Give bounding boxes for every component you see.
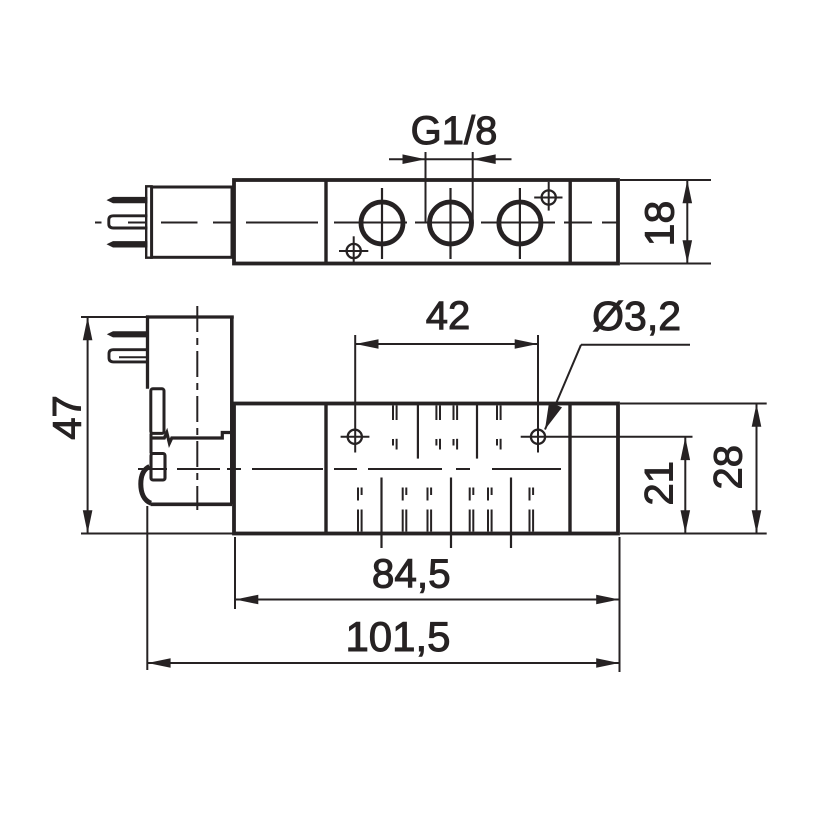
svg-text:Ø3,2: Ø3,2: [592, 293, 681, 339]
svg-text:84,5: 84,5: [372, 551, 451, 597]
svg-text:G1/8: G1/8: [411, 109, 498, 153]
svg-text:101,5: 101,5: [345, 613, 450, 660]
svg-text:21: 21: [637, 461, 681, 506]
svg-text:47: 47: [46, 395, 90, 440]
svg-text:42: 42: [426, 294, 471, 338]
svg-text:18: 18: [637, 201, 683, 247]
svg-text:28: 28: [707, 445, 751, 490]
